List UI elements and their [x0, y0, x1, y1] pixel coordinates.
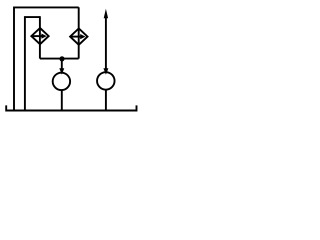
dependent source F2 diamond — [70, 28, 87, 44]
wire: I1 to bus — [61, 90, 63, 111]
wire: diamond2 branch vertical — [78, 7, 80, 58]
wire: loop bottom — [40, 58, 79, 60]
current source I1 circle — [53, 73, 70, 90]
wire: inner left branch with loop top — [25, 17, 40, 110]
arrowhead into I1 — [59, 68, 64, 74]
F1 arrow — [32, 35, 43, 37]
wire: outer left + top — [14, 7, 79, 110]
bottom bus with end ticks — [6, 105, 136, 110]
I2 long up arrow — [105, 14, 107, 71]
F2 arrow — [71, 36, 82, 38]
wire: I2 to bus — [105, 90, 107, 111]
wire: diamond1 branch vertical — [39, 16, 41, 58]
current source I2 circle — [97, 72, 115, 90]
node junction dot — [59, 56, 64, 61]
wire: junction to I1 — [61, 59, 63, 71]
arrowhead into I2 — [103, 68, 108, 74]
dependent source F1 diamond — [31, 28, 48, 44]
